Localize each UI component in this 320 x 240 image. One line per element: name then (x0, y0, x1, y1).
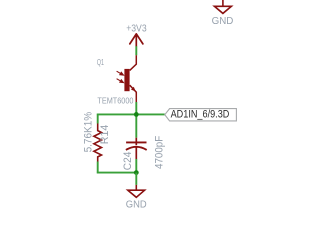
capacitor C24 (126, 138, 147, 159)
svg-text:5.76K1%: 5.76K1% (82, 112, 95, 153)
svg-text:R14: R14 (99, 125, 111, 145)
Q1 base bar (124, 69, 129, 91)
ground GND bottom (128, 185, 145, 197)
svg-text:GND: GND (126, 199, 147, 210)
svg-text:GND: GND (212, 16, 234, 27)
svg-text:C24: C24 (121, 152, 133, 171)
svg-text:Q1: Q1 (97, 59, 104, 67)
bottom horizontal wire (97, 172, 136, 174)
+3V3 symbol P1 (130, 34, 143, 46)
resistor R14 (94, 124, 102, 162)
ground GND top-right (214, 0, 231, 13)
Q1 photon arrow 1 (117, 71, 124, 75)
svg-text:4700pF: 4700pF (154, 136, 166, 169)
junction node bottom (134, 170, 139, 175)
svg-text:TEMT6000: TEMT6000 (97, 96, 134, 106)
wire to resistor top (97, 114, 99, 124)
wire cap bottom (135, 159, 137, 173)
svg-text:AD1IN_6/9.3D: AD1IN_6/9.3D (171, 109, 230, 121)
Q1 emitter arrowhead (131, 87, 136, 92)
wire +3V3 to collector (135, 46, 137, 55)
net label AD1IN_6/9.3D (165, 109, 237, 121)
wire emitter down to cap (135, 102, 137, 138)
wire down to ground (135, 173, 137, 185)
junction node at emitter/R/C (134, 112, 139, 117)
wire resistor bottom (97, 162, 99, 174)
transistor Q1 TEMT6000 (130, 55, 137, 102)
Q1 photon arrow 2 (117, 79, 124, 83)
wire horizontal to net label (97, 113, 165, 115)
